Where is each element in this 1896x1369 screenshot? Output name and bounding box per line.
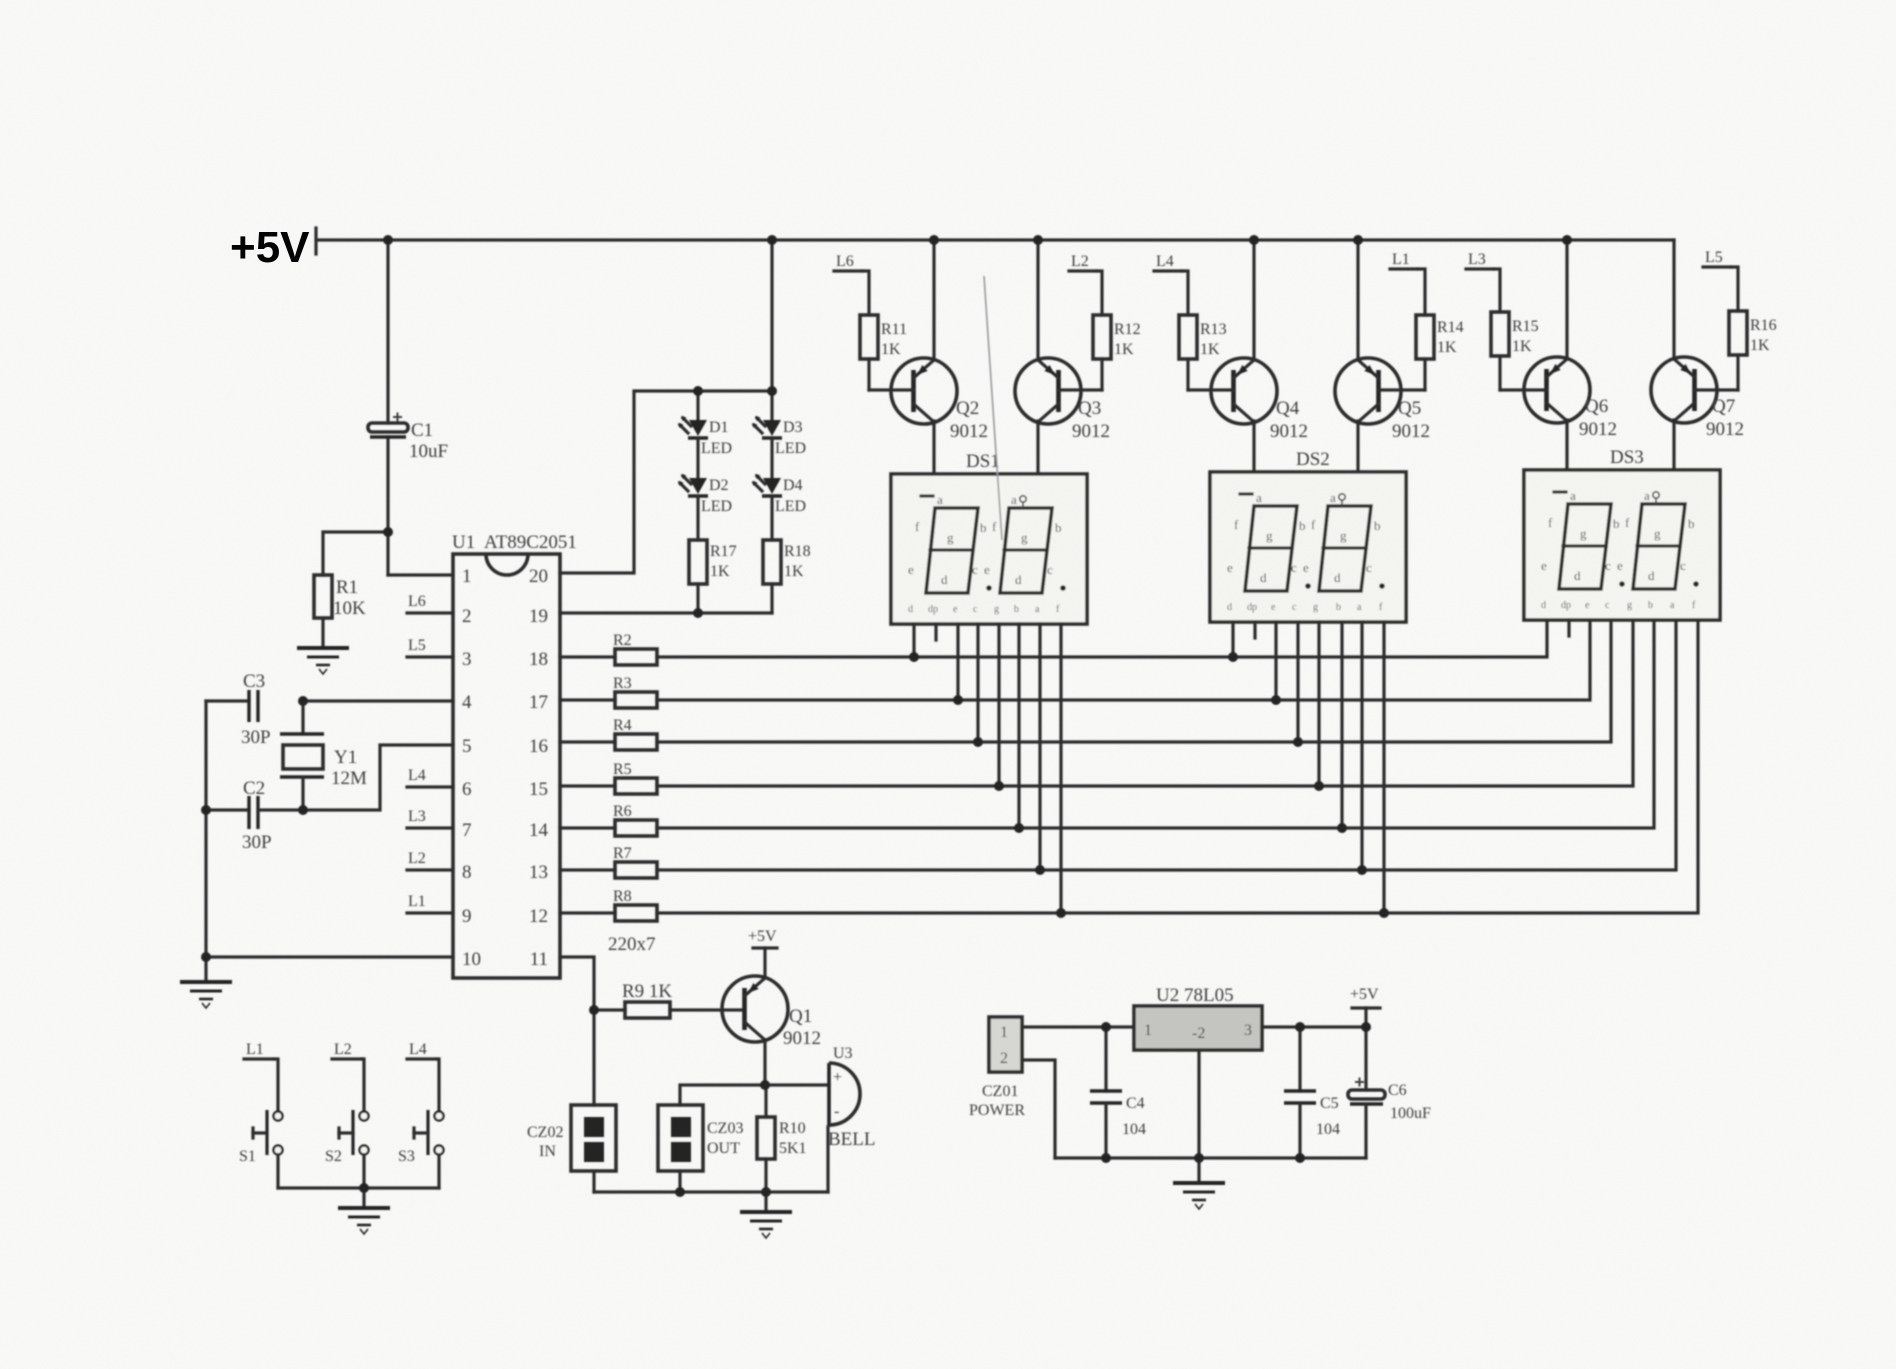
ground below R1: [297, 648, 349, 674]
LED D1: [678, 391, 732, 457]
wire segment g row pin12 to DS3: [657, 620, 1698, 913]
switch S1: [239, 1110, 283, 1188]
net label L2 at R12: [1069, 253, 1102, 315]
wire segment b row pin17 to DS3: [657, 620, 1590, 700]
ground below bell bus: [740, 1212, 792, 1238]
wire RST node to R1: [323, 532, 388, 575]
U1 pin numbers left column: [462, 566, 481, 970]
resistor R3 220: [560, 675, 657, 708]
resistor R4 220: [560, 717, 657, 750]
wire +5V top rail: [318, 238, 1674, 241]
capacitor C5 104: [1284, 1027, 1340, 1158]
net label L4 pin6 stub: [407, 767, 453, 787]
DS1 bottom pin stubs: [914, 624, 1061, 913]
net label L3 at R15: [1466, 251, 1500, 312]
wire segment f row pin13 to DS3: [657, 620, 1676, 870]
wire segment e row pin14 to DS3: [657, 620, 1654, 828]
power terminal tick +5V: [314, 228, 317, 254]
connector CZ01 POWER: [969, 1017, 1025, 1119]
display DS1 dual 7-segment: [891, 451, 1087, 624]
DS3 dp stub: [1567, 620, 1570, 636]
net label L4 at S3: [407, 1041, 439, 1110]
net label L3 pin7 stub: [407, 808, 453, 828]
resistor R1 10K: [314, 575, 366, 646]
net label L6 pin2 stub: [407, 593, 453, 613]
resistor R14 1K: [1416, 315, 1464, 390]
wire segment a row pin18 to DS3: [657, 620, 1547, 657]
resistor R18 1K: [763, 540, 811, 613]
capacitor C3 30P: [206, 671, 271, 748]
wire pin4 XTAL2: [303, 699, 453, 702]
wire +5V drop to LED anodes: [770, 240, 773, 391]
display DS3 dual 7-segment: [1524, 447, 1720, 620]
power symbol +5V at U2 output: [1350, 986, 1380, 1027]
IC U1 AT89C2051 body: [452, 532, 577, 978]
LED D2: [678, 438, 732, 540]
wire Q1 emitter to bell node: [763, 1040, 766, 1085]
wire pin1 RST: [388, 573, 453, 576]
wire left ground rail: [204, 701, 207, 957]
net label L5 pin3 stub: [407, 637, 453, 657]
transistor Q3 9012: [1015, 240, 1110, 474]
LED D3: [752, 391, 806, 457]
resistor R5 220: [560, 761, 657, 794]
switch S3: [398, 1110, 444, 1188]
net label L1 at S1: [244, 1041, 278, 1110]
scan crease line: [984, 276, 1002, 540]
net label L2 at S2: [332, 1041, 364, 1110]
wire switches common bus: [278, 1186, 439, 1189]
connector CZ03 OUT: [658, 1105, 743, 1192]
wire CZ01 pin2 to ground bus: [1022, 1060, 1055, 1158]
resistor R6 220: [560, 803, 657, 836]
capacitor C4 104: [1090, 1027, 1146, 1158]
U1 pin numbers right column: [529, 566, 549, 970]
connector CZ02 IN: [527, 1010, 616, 1192]
wire pin5 XTAL1: [303, 745, 453, 810]
wire segment c row pin16 to DS3: [657, 620, 1611, 742]
resistor R2 220: [560, 632, 657, 665]
net label L5 at R16: [1703, 249, 1738, 311]
transistor Q1 9012: [722, 976, 821, 1049]
wire CZ01 pin1 to U2 input: [1022, 1025, 1134, 1028]
crystal Y1 12M: [280, 701, 367, 810]
resistor R15 1K: [1491, 312, 1539, 390]
resistor R7 220: [560, 845, 657, 878]
net label L6 at R11: [834, 253, 869, 315]
power symbol +5V at Q1: [748, 928, 777, 978]
transistor Q6 9012: [1500, 240, 1617, 470]
resistor R13 1K: [1179, 315, 1227, 390]
capacitor C1: [368, 413, 448, 463]
wire pin19 to LED cathodes: [560, 611, 772, 614]
wire bell to ground bus: [826, 1127, 829, 1192]
resistor R9 1K: [594, 981, 744, 1018]
resistor R17 1K: [689, 540, 737, 613]
wire pin20 VCC to LED rail: [560, 391, 772, 573]
display DS2 dual 7-segment: [1210, 449, 1406, 622]
wire rail to ground: [204, 957, 207, 980]
wire bus to switches ground: [362, 1188, 365, 1206]
resistor R12 1K: [1093, 315, 1141, 390]
net label L4 at R13: [1154, 253, 1188, 315]
capacitor C2 30P: [206, 778, 303, 853]
resistor R10 5K1: [757, 1085, 807, 1192]
wire pin11 to R9 node: [560, 957, 594, 1010]
wire C1 branch from rail: [386, 240, 389, 575]
regulator U2 78L05: [1134, 985, 1262, 1050]
ground below switches: [338, 1208, 390, 1234]
transistor Q5 9012: [1335, 240, 1430, 472]
wire PSU ground bus: [1055, 1156, 1366, 1159]
wire bottom ground bus: [594, 1190, 828, 1193]
transistor Q7 9012: [1651, 240, 1744, 470]
ground below U2: [1173, 1183, 1225, 1209]
wire segment d row pin15 to DS3: [657, 620, 1633, 786]
resistor R16 1K: [1729, 311, 1777, 390]
wire U2 output to +5V: [1262, 1025, 1366, 1028]
wire pin10 GND: [206, 955, 453, 958]
transistor Q2 9012: [869, 240, 988, 474]
switch S2: [325, 1110, 369, 1188]
resistor R11 1K: [860, 315, 907, 390]
net label L1 at R14: [1390, 251, 1425, 315]
wire bus to PSU ground: [1197, 1158, 1200, 1181]
buzzer U3 BELL: [828, 1045, 876, 1150]
wire U2 ground pin: [1197, 1050, 1200, 1158]
net label L1 pin9 stub: [407, 893, 453, 913]
transistor Q4 9012: [1188, 240, 1308, 472]
wire bell node to bell: [765, 1083, 829, 1086]
net label L2 pin8 stub: [407, 850, 453, 870]
resistor R8 220: [560, 888, 657, 921]
wire bus to ground: [764, 1192, 767, 1210]
LED D4: [752, 438, 806, 540]
ground left rail: [180, 982, 232, 1008]
wire bell node to CZ03: [680, 1085, 765, 1105]
capacitor C6 100uF: [1348, 1027, 1431, 1158]
DS2 bottom pin stubs: [1233, 622, 1384, 913]
